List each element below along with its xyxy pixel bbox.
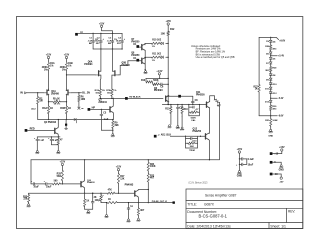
svg-text:+15: +15	[274, 153, 279, 156]
svg-text:10K: 10K	[161, 33, 166, 36]
ground G5	[177, 126, 179, 128]
wire R1B to Q4 gate	[66, 74, 67, 75]
transistor Q15	[134, 191, 136, 196]
chain tap 3	[270, 110, 272, 115]
resistor R24	[57, 137, 59, 138]
svg-text:10uF: 10uF	[33, 187, 39, 189]
svg-text:1%: 1%	[44, 69, 47, 71]
svg-text:4K7: 4K7	[140, 209, 145, 212]
svg-text:R12: R12	[170, 28, 175, 31]
chain top tap	[272, 37, 278, 39]
power +15V V4	[167, 23, 169, 25]
svg-text:1N: 1N	[266, 41, 269, 43]
svg-text:BK: BK	[89, 43, 93, 45]
wire J2 to Q2 base	[90, 108, 110, 110]
wire D3 to rail	[166, 56, 168, 58]
capacitor C11u	[189, 106, 193, 108]
transistor Q8	[141, 58, 143, 63]
resistor chain R33	[147, 171, 149, 174]
svg-text:HD BLACK: HD BLACK	[129, 96, 141, 99]
wire emitter node right	[85, 192, 108, 194]
resistor R23	[270, 116, 272, 119]
svg-text:B-CS-G087-0-1: B-CS-G087-0-1	[199, 213, 228, 218]
wire R18 down	[218, 104, 220, 160]
output wire	[101, 202, 107, 204]
power +15V V6	[61, 163, 63, 165]
svg-text:TRIM: TRIM	[189, 150, 195, 152]
svg-text:1%: 1%	[152, 46, 155, 48]
svg-text:+15V: +15V	[60, 162, 66, 164]
diode D4	[270, 37, 272, 40]
svg-text:1 uF: 1 uF	[39, 140, 44, 142]
svg-text:-15V: -15V	[279, 182, 284, 184]
diode D13	[270, 98, 272, 100]
resistor R18 4k7	[214, 99, 219, 104]
transistor Q2 2N5244	[109, 107, 111, 112]
ground G13	[137, 218, 139, 220]
potentiometer R17	[190, 111, 197, 113]
capacitor C17	[239, 158, 241, 160]
capacitor C16	[128, 203, 130, 208]
potentiometer R29	[100, 193, 102, 195]
ground G15	[280, 165, 282, 167]
svg-text:4K7: 4K7	[150, 177, 155, 180]
pad J2	[88, 108, 91, 111]
transistor Q5	[114, 71, 116, 76]
svg-text:PN4250: PN4250	[196, 94, 205, 97]
wire Q1B source	[65, 94, 67, 106]
svg-text:BK: BK	[108, 43, 112, 45]
resistor R31	[117, 174, 119, 184]
svg-text:IN: IN	[20, 92, 23, 95]
wire R4A to bus	[48, 114, 50, 120]
wire J1 to rail	[78, 32, 93, 34]
wire Q2 collector	[112, 98, 114, 106]
svg-text:1K: 1K	[68, 107, 71, 110]
pad K4	[154, 135, 157, 138]
wire Q4 leads	[99, 49, 102, 71]
wire D2 to rail	[166, 42, 168, 44]
svg-text:10uF: 10uF	[46, 187, 52, 189]
wire R1B to Q1B drain	[66, 71, 68, 90]
svg-text:R10 1K2: R10 1K2	[152, 40, 162, 42]
wire Q5 leads	[112, 70, 115, 72]
capacitor C13	[31, 183, 33, 185]
svg-text:1K: 1K	[255, 89, 258, 91]
resistor R1A	[47, 63, 49, 71]
svg-text:1K: 1K	[108, 199, 111, 201]
svg-text:PN4093: PN4093	[125, 184, 134, 187]
pad K1	[136, 45, 139, 48]
wire Q9 emitter	[167, 100, 169, 104]
pad P-15	[270, 173, 273, 176]
svg-text:+15V: +15V	[116, 167, 122, 169]
resistor R19	[258, 85, 260, 93]
svg-text:47K: 47K	[108, 188, 113, 191]
svg-text:500K: 500K	[153, 80, 159, 82]
top rail 1	[93, 32, 122, 34]
svg-text:2K: 2K	[94, 197, 97, 199]
svg-text:(C) N. Breton 2013: (C) N. Breton 2013	[189, 181, 209, 184]
wire R30 to base	[115, 192, 135, 194]
wire R2 to tail bus	[37, 104, 39, 120]
capacitor C6	[160, 83, 162, 86]
svg-text:Date: 2/04/2013 12h45m13s: Date: 2/04/2013 12h45m13s	[187, 225, 231, 229]
chain top wire	[259, 36, 272, 38]
power +15V V7	[117, 168, 119, 170]
capacitor C12	[51, 137, 53, 139]
svg-text:R4A: R4A	[42, 107, 47, 110]
svg-text:+15V: +15V	[64, 55, 70, 57]
power +15V V9	[281, 149, 283, 151]
diode D11	[270, 85, 272, 87]
resistor R34 on out	[107, 202, 117, 204]
svg-text:GND: GND	[268, 135, 273, 137]
resistor R27 220	[28, 193, 30, 194]
wire Q5 gate to K2	[118, 61, 136, 75]
wire Q11 collector loop	[210, 96, 215, 102]
svg-text:10M: 10M	[81, 99, 86, 101]
svg-text:25V: 25V	[96, 43, 100, 45]
svg-text:R4B: R4B	[60, 107, 65, 110]
svg-text:-5.4V: -5.4V	[278, 97, 284, 100]
capacitor C9	[177, 105, 179, 108]
wire K1 to Q7 base	[139, 46, 142, 48]
ground G11 stub	[106, 203, 108, 215]
resistor R7	[99, 89, 101, 96]
capacitor C4	[121, 33, 123, 41]
ground G9	[28, 202, 30, 203]
wire Q8 collector	[145, 57, 151, 59]
svg-text:R16: R16	[184, 109, 189, 111]
resistor R25	[61, 170, 63, 181]
resistor R1B	[65, 63, 67, 71]
wire C5 to R9	[101, 129, 112, 131]
wire Q12 collector	[208, 132, 211, 134]
resistor R16	[181, 105, 183, 107]
wire Q7/Q8 emitter chain	[144, 50, 146, 69]
svg-text:10uF: 10uF	[116, 40, 122, 42]
resistor R21	[270, 64, 272, 67]
svg-text:1%: 1%	[102, 90, 105, 92]
svg-text:PN4093: PN4093	[154, 89, 163, 92]
wire Q1A source	[48, 94, 50, 106]
capacitor C1	[92, 33, 94, 41]
svg-text:CAL: CAL	[191, 119, 196, 122]
diode D2	[160, 42, 161, 44]
wire R6 stub	[78, 102, 80, 108]
svg-text:R15: R15	[165, 108, 170, 110]
transistor Q4	[98, 71, 100, 76]
svg-text:5K6: 5K6	[57, 175, 62, 178]
wire Q1B drain	[65, 89, 67, 90]
capacitor C10	[186, 138, 191, 140]
resistor R12	[167, 31, 169, 36]
potentiometer R14	[151, 82, 154, 84]
pad J4	[25, 129, 28, 132]
wire R28b C15 join	[84, 207, 86, 210]
bypass wire left lower	[258, 92, 260, 116]
ground G4	[169, 125, 171, 127]
svg-text:100K: 100K	[272, 120, 278, 122]
title block	[186, 189, 303, 229]
svg-text:GND: GND	[279, 170, 284, 172]
ground G8	[57, 151, 59, 153]
diode D7	[270, 60, 272, 62]
wire Q1B gate to label	[71, 92, 81, 94]
resistor R15	[170, 105, 172, 107]
svg-text:PN4093: PN4093	[84, 63, 93, 66]
wire emitter node left	[29, 192, 85, 194]
power +1.5V V5	[158, 73, 160, 75]
potentiometer R19t	[186, 142, 188, 144]
power +15V V3	[100, 25, 102, 27]
svg-text:1%: 1%	[68, 65, 71, 67]
pad P0V	[270, 161, 273, 164]
svg-text:BL_2N: BL_2N	[82, 92, 90, 95]
diode D10	[270, 80, 272, 82]
wire IN to Q1A gate	[27, 92, 44, 94]
svg-text:+15V: +15V	[165, 21, 171, 23]
chain tap 1	[270, 54, 272, 56]
svg-text:1%: 1%	[113, 90, 116, 92]
power -15V V10	[280, 177, 282, 179]
svg-text:PN4250: PN4250	[131, 40, 140, 43]
transistor Q9	[165, 96, 167, 101]
resistor R28b	[84, 193, 86, 199]
svg-text:Sheet: 1/1: Sheet: 1/1	[270, 225, 286, 229]
no-connect X1	[74, 118, 76, 120]
svg-text:R11 1K2: R11 1K2	[152, 54, 162, 56]
wire J4 to Q13 base	[27, 129, 54, 131]
svg-text:10uF: 10uF	[94, 40, 100, 42]
resistor R20	[270, 42, 272, 45]
diode D3	[160, 56, 161, 58]
diode D9	[270, 76, 272, 78]
wire K2 to Q8 base	[139, 60, 142, 62]
right rail wire	[167, 36, 169, 105]
loop top wire	[31, 159, 219, 161]
pad P+15	[270, 152, 273, 155]
wire R25 down	[61, 181, 63, 184]
svg-text:1K: 1K	[50, 107, 53, 110]
svg-text:25V: 25V	[117, 43, 121, 45]
Q6 net top wire	[146, 77, 168, 79]
wire Q11 emitter	[208, 108, 210, 133]
svg-text:+15V: +15V	[279, 147, 285, 149]
resistor R9	[112, 120, 114, 122]
resistor R35	[137, 203, 139, 208]
transistor Q11	[206, 102, 208, 107]
pad J3	[125, 97, 128, 100]
svg-text:G087X: G087X	[204, 203, 215, 207]
diode D8	[270, 72, 272, 74]
ground G6	[270, 126, 272, 129]
transistor Q12	[205, 134, 207, 139]
svg-text:TITLE:: TITLE:	[187, 203, 197, 207]
wire R4B to bus	[66, 114, 68, 120]
wire to Q13b base	[60, 183, 81, 185]
diode D12	[270, 89, 272, 91]
svg-text:-9.6V: -9.6V	[278, 116, 284, 118]
svg-text:1 uF: 1 uF	[104, 119, 109, 121]
svg-text:+5.4V: +5.4V	[278, 55, 284, 58]
svg-text:R13: R13	[141, 80, 146, 82]
resistor R4B	[65, 106, 67, 114]
wire Q13 emitter	[57, 134, 59, 137]
svg-text:1K: 1K	[86, 201, 89, 203]
diode D5	[270, 50, 272, 52]
svg-text:39K: 39K	[115, 125, 120, 127]
resistor R26 560	[53, 183, 61, 185]
svg-text:50K: 50K	[190, 146, 194, 148]
wire R31 down	[118, 184, 120, 194]
resistor R4A	[47, 106, 49, 114]
resistor R10 1K2	[151, 42, 159, 44]
capacitor C14	[45, 183, 47, 186]
svg-text:10uF: 10uF	[248, 163, 254, 166]
resistor R11 1K2	[151, 56, 159, 58]
ground G14	[238, 171, 240, 173]
capacitor C8	[192, 96, 194, 101]
capacitor C5 1uF	[100, 109, 102, 114]
resistor R30 47K	[107, 192, 115, 194]
wire Q9 collector	[167, 95, 169, 97]
resistor R8	[111, 89, 113, 96]
svg-text:1K 1%: 1K 1%	[54, 104, 61, 106]
svg-text:PULSE_OUT #1: PULSE_OUT #1	[152, 201, 168, 203]
power +15V V8	[238, 151, 240, 153]
diode D6	[270, 56, 272, 58]
trim box outline	[186, 136, 198, 148]
mid rail 3	[99, 96, 101, 98]
resistor R22	[270, 103, 272, 105]
wire pad to -15V	[273, 174, 282, 177]
border frame	[17, 17, 303, 229]
transistor Q13	[54, 128, 56, 133]
tail pad stub	[65, 120, 67, 124]
svg-text:GND: GND	[237, 175, 243, 178]
loop left wire	[30, 160, 32, 184]
svg-text:+15V: +15V	[46, 55, 52, 57]
svg-text:1M: 1M	[39, 100, 42, 103]
ground G7	[36, 151, 38, 153]
svg-text:REV:: REV:	[288, 210, 295, 214]
wire chain to out	[147, 182, 149, 203]
potentiometer R5	[48, 101, 49, 102]
wire Q7 collector	[145, 43, 151, 45]
svg-text:1%: 1%	[152, 60, 155, 62]
wire C14 gap	[44, 183, 46, 185]
resistor chain R32	[147, 160, 149, 163]
svg-text:Sense Amplifier G087: Sense Amplifier G087	[205, 194, 237, 198]
svg-text:+15V: +15V	[237, 149, 243, 151]
svg-text:PN4250: PN4250	[131, 54, 140, 57]
transistor Q14 output	[80, 182, 82, 187]
resistor R2	[37, 92, 38, 93]
svg-text:2N5244: 2N5244	[98, 101, 107, 104]
ground G1	[112, 130, 114, 133]
svg-text:1K: 1K	[57, 99, 60, 101]
svg-text:.1uF: .1uF	[88, 40, 93, 42]
transistor Q1A	[46, 90, 48, 95]
wire rail2 to Q5	[112, 49, 114, 71]
ground G12	[128, 219, 130, 221]
ground G10	[87, 211, 89, 213]
svg-text:12K: 12K	[120, 179, 125, 181]
wire R1A to Q1A drain	[48, 71, 50, 90]
svg-text:100p: 100p	[95, 200, 101, 202]
pad J1	[75, 33, 78, 36]
bypass wire left	[258, 37, 260, 84]
emitter node wire	[37, 136, 60, 138]
capacitor C18	[239, 163, 241, 165]
pad K3	[178, 95, 181, 98]
wire to ground G8	[57, 145, 59, 151]
wire Q15 emitter	[137, 197, 139, 203]
chain tap 2	[270, 94, 272, 99]
svg-text:2N5486: 2N5486	[51, 93, 60, 96]
power +15V V1	[47, 56, 49, 58]
svg-text:Q2 PN4093: Q2 PN4093	[44, 121, 57, 124]
transistor Q1B	[67, 90, 69, 95]
ground G2	[145, 69, 147, 71]
svg-text:PN4093: PN4093	[87, 181, 95, 184]
svg-text:AC2: AC2	[31, 108, 36, 111]
wire Q13 collector	[57, 120, 59, 128]
cap join wire	[246, 159, 248, 165]
base wire bus	[162, 104, 206, 106]
svg-text:PN4250: PN4250	[193, 130, 202, 133]
svg-text:Use a matched pair for Q5 and: Use a matched pair for Q5 and Q5B	[196, 56, 235, 59]
capacitor C15	[92, 193, 93, 194]
wire Q14 emitter	[83, 187, 85, 193]
wire Q2 emitter	[112, 113, 114, 120]
svg-text:+1.5V: +1.5V	[156, 71, 163, 73]
transistor Q7	[141, 45, 143, 50]
capacitor C11	[36, 137, 38, 139]
svg-text:100K: 100K	[150, 166, 156, 168]
svg-text:.1uF: .1uF	[107, 40, 112, 42]
wire Q12 emitter	[208, 140, 211, 160]
capacitor C3	[112, 33, 114, 41]
wire Q15 collector	[138, 189, 148, 192]
svg-text:+15V: +15V	[99, 23, 105, 25]
svg-text:0.1uF: 0.1uF	[248, 158, 255, 161]
tail bus wire	[38, 119, 113, 121]
pad K2	[136, 59, 139, 62]
svg-text:1%: 1%	[62, 69, 65, 71]
svg-text:+9.6V: +9.6V	[279, 41, 285, 43]
resistor R13	[145, 78, 147, 82]
top rail 2	[93, 48, 122, 50]
svg-text:1%: 1%	[50, 65, 53, 67]
+15V jog wire	[102, 31, 113, 34]
power +15V V2	[65, 56, 67, 58]
wire pad to +15V	[273, 151, 282, 153]
wire pad to gnd	[273, 162, 282, 164]
wire to ground	[238, 159, 240, 170]
wire Q14 collector	[83, 160, 85, 181]
resistor R6	[78, 92, 79, 93]
Q12 base wire	[170, 135, 205, 137]
wire Q1A drain	[48, 89, 50, 90]
capacitor C2	[100, 33, 102, 41]
trim box upper outline	[189, 105, 200, 116]
